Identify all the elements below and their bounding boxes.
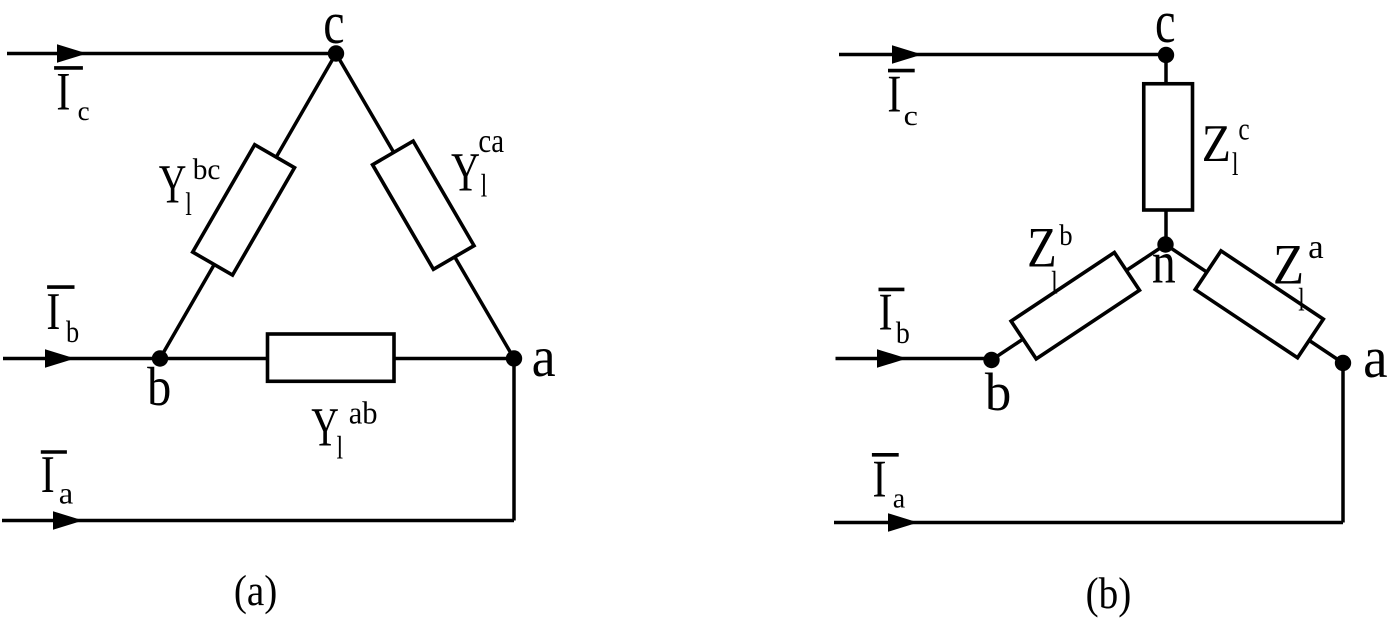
svg-text:ca: ca [478,122,504,160]
node a (left diagram) [506,350,522,366]
arrowhead on phase c feed (right) [892,45,922,64]
svg-text:Y: Y [159,155,187,216]
wire: phase c feed line (left diagram) [7,52,336,56]
svg-text:Y: Y [311,398,339,459]
svg-text:I: I [41,445,55,504]
svg-text:b: b [1059,220,1072,253]
admittance Yab (box on side b-a) [268,334,395,381]
label current Ic (right diagram) [888,69,915,73]
svg-text:a: a [532,325,556,389]
svg-text:b: b [896,317,910,351]
svg-text:c: c [1155,0,1176,56]
node c (left diagram) [328,45,344,61]
wire: n to a branch [1166,245,1344,364]
wire: triangle side b-a [160,357,514,361]
svg-text:b: b [147,357,171,418]
node n (star point) [1157,236,1173,252]
svg-text:bc: bc [193,154,221,186]
svg-text:I: I [879,283,893,342]
svg-text:Y: Y [451,142,480,203]
wire: phase b feed line (right diagram) [836,357,992,361]
svg-text:c: c [323,0,344,56]
svg-text:I: I [46,282,60,341]
wire: vertical riser from node a to phase a feed [512,359,516,521]
wire: triangle side c-a [336,54,514,359]
svg-text:ab: ab [349,395,378,431]
svg-text:b: b [985,361,1011,422]
svg-text:l: l [185,187,191,223]
arrowhead on phase b feed [45,349,75,368]
svg-text:l: l [1051,265,1057,301]
admittance Yca (box on side c-a) [373,141,474,269]
svg-text:c: c [904,100,918,132]
node b (right diagram) [983,352,999,368]
wire: phase a feed line (left diagram) [2,519,514,523]
label current Ic (left diagram) [54,66,83,70]
svg-text:Z: Z [1202,114,1231,173]
arrowhead on phase a feed (right) [888,513,918,532]
svg-text:l: l [337,431,343,467]
svg-text:I: I [873,450,887,509]
wire: n to b branch [992,245,1166,361]
wire: phase b feed line (left diagram) [3,357,160,361]
label current Ib (right diagram) [879,288,905,292]
arrowhead on phase c feed [57,44,87,63]
svg-text:a: a [59,476,73,510]
node c (right diagram) [1158,47,1174,63]
wire: phase c feed line (right diagram) [839,53,1166,57]
wire: c to n vertical branch [1164,55,1168,245]
impedance Za (box on branch n-a) [1195,251,1323,358]
svg-text:l: l [1298,282,1304,318]
label current Ib (left diagram) [47,285,74,289]
svg-text:a: a [1363,327,1387,391]
svg-text:n: n [1152,229,1176,296]
wire: vertical riser from node a to phase a feed (right) [1341,363,1345,523]
svg-text:l: l [1232,147,1238,183]
impedance Zc (vertical box on branch c-n) [1144,84,1193,210]
impedance Zb (box on branch n-b) [1011,252,1139,358]
label current Ia (left diagram) [41,450,67,454]
svg-text:a: a [1308,228,1324,265]
arrowhead on phase a feed [53,511,83,530]
svg-text:c: c [78,96,90,126]
wire: phase a feed line (right diagram) [834,521,1343,525]
svg-text:I: I [56,62,70,123]
svg-text:(a): (a) [234,566,277,615]
svg-text:(b): (b) [1086,570,1132,619]
svg-text:c: c [1238,112,1249,148]
admittance Ybc (box on side b-c) [193,145,295,275]
svg-text:b: b [66,315,79,349]
node a (right diagram) [1335,355,1351,371]
node b (left diagram) [152,350,168,366]
arrowhead on phase b feed (right) [877,349,907,368]
svg-text:a: a [893,484,906,515]
svg-text:I: I [887,65,901,124]
wire: triangle side b-c [160,54,336,359]
svg-text:l: l [481,169,487,205]
label current Ia (right diagram) [872,453,899,457]
